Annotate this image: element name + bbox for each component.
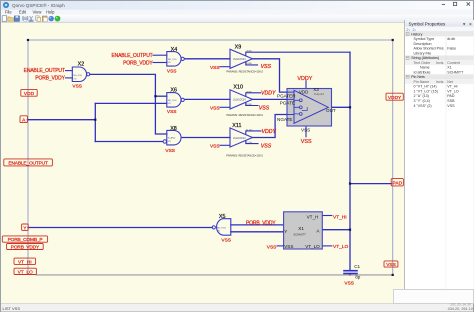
svg-text:PORB_VDDY: PORB_VDDY: [123, 60, 153, 66]
port Y: [22, 224, 29, 231]
panel header: [405, 20, 474, 26]
svg-text:VSS: VSS: [167, 109, 177, 115]
buffer X10: [226, 85, 263, 117]
label: X2 input nets: [24, 68, 66, 81]
wire: net A from port to junction: [27, 119, 95, 121]
svg-text:1 "VT_LO" (15): 1 "VT_LO" (15): [414, 89, 438, 93]
label: VT_LO right of X1: [333, 244, 348, 250]
block X3 Output3: [277, 87, 336, 132]
svg-text:8p: 8p: [355, 275, 361, 280]
svg-text:VSS: VSS: [210, 143, 220, 149]
svg-text:VSS: VSS: [344, 280, 354, 286]
svg-text:ND_PG1: ND_PG1: [73, 75, 83, 77]
label: X4 input nets: [111, 53, 153, 66]
svg-text:PAD: PAD: [393, 180, 403, 186]
wire: X1 VSS stub left: [277, 245, 284, 247]
buffer X9: [226, 45, 263, 74]
bottom command field: [394, 290, 474, 304]
menu bar: [1, 10, 473, 15]
icon open: [8, 17, 14, 21]
svg-text:VSS: VSS: [284, 244, 293, 249]
svg-text:VT_HI: VT_HI: [333, 214, 347, 220]
wire: X2 output to X6/X8 column: [90, 74, 167, 134]
nand gate X4: [167, 47, 184, 74]
status bar: [1, 304, 473, 312]
wire: X4 input stub ENABLE_OUTPUT: [153, 54, 167, 56]
wire: X9 output to PGATER: [253, 59, 288, 92]
svg-text:SCHMITT: SCHMITT: [447, 71, 464, 75]
svg-text:VSS: VSS: [447, 104, 455, 108]
label: X9 VSS right: [261, 64, 272, 70]
svg-text:VT_H: VT_H: [307, 214, 319, 219]
label: X9 VSS left: [210, 65, 220, 71]
svg-text:PAD: PAD: [447, 94, 455, 98]
label: VSS left of X1: [267, 245, 277, 251]
right panel: [405, 20, 474, 304]
wire: X4 input stub PORB_VDDY: [153, 62, 167, 64]
port VT_HI: [14, 258, 36, 265]
svg-text:2U3B: 2U3B: [246, 104, 252, 106]
svg-text:VSS: VSS: [259, 105, 270, 111]
svg-text:X6: X6: [170, 88, 177, 94]
svg-text:C1: C1: [354, 264, 360, 269]
svg-text:ENABLE_OUTPUT: ENABLE_OUTPUT: [111, 53, 152, 59]
svg-text:Pin Nets: Pin Nets: [411, 75, 425, 79]
wire: X9 upper-right pin to PAD net vertical: [246, 52, 350, 55]
svg-text:Allow Shorted Pins: Allow Shorted Pins: [414, 47, 444, 51]
node: PAD branch junction: [349, 183, 351, 185]
svg-text:ENABLE_OUTPUT: ENABLE_OUTPUT: [24, 68, 65, 74]
svg-text:PARAMS: RESISTANCE=100.0: PARAMS: RESISTANCE=100.0: [226, 69, 263, 73]
port PAD (right): [391, 179, 403, 187]
svg-text:VDD: VDD: [24, 91, 35, 97]
svg-text:Invis: Invis: [436, 61, 444, 65]
svg-text:A_GO: A_GO: [246, 128, 252, 131]
capacitor C1: [344, 264, 361, 287]
wire: X11 output to NGATE: [253, 115, 288, 138]
svg-text:PARAMS: RESISTANCE=100.0: PARAMS: RESISTANCE=100.0: [226, 113, 263, 117]
svg-text:File: File: [5, 10, 12, 15]
svg-text:PORB_VDDY: PORB_VDDY: [11, 245, 40, 251]
wire: branch to X6 input A: [155, 95, 166, 97]
svg-text:VSS: VSS: [386, 262, 396, 268]
node: bottom-right junction: [392, 274, 394, 276]
svg-text:2U3D: 2U3D: [246, 51, 252, 53]
svg-text:Symbol Type: Symbol Type: [414, 37, 435, 41]
wire: X10 upper-right pin VDDY stub: [246, 93, 261, 96]
svg-text:VDDY: VDDY: [262, 129, 277, 135]
block X1 SCHMITT: [284, 212, 323, 249]
wire: X5 input from X1 Y pin: [231, 231, 284, 233]
port PORB_COMB_P: [2, 236, 47, 243]
port A: [20, 116, 27, 124]
wire: X3 VSS stub below: [305, 126, 307, 137]
svg-text:X1: X1: [298, 226, 304, 231]
svg-text:Name: Name: [420, 66, 430, 70]
label: X11 VDDY right: [262, 129, 277, 135]
svg-text:X8: X8: [170, 126, 177, 132]
wire: X8 output to X11 input: [181, 137, 230, 139]
svg-text:LSLVLDC24: LSLVLDC24: [233, 100, 246, 102]
schematic canvas: [1, 23, 405, 304]
svg-text:3 "Y" (0,4): 3 "Y" (0,4): [414, 99, 430, 103]
svg-text:VSS: VSS: [267, 245, 277, 251]
svg-text:PGATE: PGATE: [280, 101, 295, 106]
svg-text:VDDY: VDDY: [388, 95, 402, 101]
icon copy: [36, 16, 41, 22]
svg-text:Text Order: Text Order: [414, 61, 432, 65]
svg-text:ND_PG1: ND_PG1: [168, 59, 178, 61]
nand gate X2: [72, 61, 89, 89]
icon paste: [42, 16, 47, 22]
wire: net A to X6 input B: [95, 102, 167, 104]
svg-text:X5: X5: [219, 214, 226, 220]
svg-text:VT_LO: VT_LO: [305, 244, 320, 249]
node: top-right corner: [392, 39, 394, 41]
app icon: [3, 2, 9, 8]
svg-text:2 "A" (13): 2 "A" (13): [414, 94, 429, 98]
svg-text:ENABLE_OUTPUT: ENABLE_OUTPUT: [8, 161, 48, 167]
svg-text:Edit: Edit: [19, 10, 27, 15]
category String (Attributes): [405, 55, 474, 60]
svg-text:VT_LO: VT_LO: [333, 244, 348, 250]
maximize button: [453, 2, 456, 5]
label: X10 VDDY right: [261, 91, 276, 97]
svg-text:PORB_COMB_P: PORB_COMB_P: [8, 237, 43, 243]
title bar: [1, 1, 473, 10]
wire: X11 upper-right pin VDDY stub: [246, 131, 261, 134]
close button: [467, 2, 470, 5]
svg-text:PARAMS: RESISTANCE=100.0: PARAMS: RESISTANCE=100.0: [226, 153, 263, 157]
wire: X11 VSS stub left: [220, 144, 230, 146]
svg-text:2U3D: 2U3D: [246, 91, 252, 93]
wire: X3 VDD stub to VDDY label: [305, 81, 307, 89]
svg-text:SCHMITT: SCHMITT: [293, 232, 306, 236]
svg-text:VDDY: VDDY: [297, 76, 312, 82]
svg-text:LIST VSS: LIST VSS: [3, 306, 21, 311]
wire: X9 lower-right pin VSS stub: [246, 62, 258, 65]
svg-text:VSS: VSS: [210, 105, 220, 111]
wire: X1 VT_H stub: [322, 215, 332, 217]
wire: net A vertical branch: [94, 103, 96, 141]
svg-text:VSS: VSS: [261, 64, 272, 70]
icon undo: [49, 16, 54, 21]
svg-text:PORB_VDDY: PORB_VDDY: [246, 220, 276, 226]
wire: main vertical PAD net: [349, 52, 351, 270]
svg-text:VT_LO: VT_LO: [447, 89, 459, 93]
label: X11 VSS right: [261, 144, 272, 150]
wire: X4 output to X9 input: [185, 58, 230, 60]
svg-text:Id attribute: Id attribute: [414, 71, 431, 75]
svg-text:ND_PG4: ND_PG4: [217, 227, 227, 229]
toolbar: [1, 15, 473, 23]
svg-text:2U3B: 2U3B: [246, 63, 252, 65]
svg-text:Library File: Library File: [414, 52, 432, 56]
icon new: [2, 16, 6, 22]
wire: left vertical net (thin): [27, 40, 29, 274]
wire: X3 OUT to main vertical: [332, 106, 351, 108]
wire: net A to X8 inverted input: [95, 141, 163, 143]
svg-text:VD: VD: [168, 103, 171, 105]
wire: Y net from port to X5 output: [28, 227, 212, 229]
svg-text:2↓: 2↓: [407, 28, 411, 32]
svg-text:Help: Help: [46, 10, 55, 15]
svg-text:Description: Description: [414, 42, 432, 46]
minimize button: [442, 3, 445, 5]
svg-text:X2: X2: [78, 61, 85, 67]
wire: PAD branch to port: [350, 183, 392, 185]
svg-text:Y: Y: [284, 229, 287, 234]
svg-text:P_GO: P_GO: [246, 142, 252, 144]
svg-text:VT_HI: VT_HI: [18, 259, 32, 265]
svg-text:Net: Net: [447, 80, 453, 84]
svg-text:4 "VSS" (2): 4 "VSS" (2): [414, 104, 432, 108]
wire: X2 input stub ENABLE_OUTPUT: [66, 70, 73, 72]
svg-text:VD: VD: [73, 78, 76, 80]
wire: top horizontal net (thin): [28, 39, 393, 41]
svg-text:False: False: [447, 47, 456, 51]
svg-text:VDD: VDD: [299, 90, 308, 95]
svg-text:VSS: VSS: [261, 144, 272, 150]
svg-text:VT_HI: VT_HI: [447, 85, 457, 89]
svg-text:NGATE: NGATE: [277, 117, 292, 122]
svg-text:262.35, 94.30: 262.35, 94.30: [450, 303, 471, 307]
svg-text:Symbol Properties: Symbol Properties: [409, 21, 447, 26]
icon save: [14, 16, 19, 22]
svg-text:Invis: Invis: [436, 80, 444, 84]
port PORB_VDDY: [7, 244, 44, 251]
svg-text:Qorvo QSPICE® - IGraph: Qorvo QSPICE® - IGraph: [12, 2, 65, 8]
svg-text:VT_LO: VT_LO: [18, 270, 33, 276]
svg-text:VSS: VSS: [72, 83, 82, 89]
svg-text:Content: Content: [447, 61, 460, 65]
svg-text:View: View: [33, 10, 42, 15]
svg-text:X11: X11: [232, 123, 241, 129]
label: VSS below X3: [301, 139, 312, 145]
wire: X2 input stub PORB_VDDY: [66, 77, 73, 79]
svg-text:0 "VT_HI" (14): 0 "VT_HI" (14): [414, 85, 437, 89]
svg-text:VSS: VSS: [167, 69, 177, 75]
category History: [405, 32, 474, 37]
label: VDDY above X3: [297, 76, 312, 82]
and gate X8 with inverted input: [163, 126, 181, 154]
svg-text:PGATER: PGATER: [277, 94, 296, 99]
port VDD: [21, 89, 37, 97]
wire: X10 output to PGATE: [253, 98, 288, 100]
svg-text:X9: X9: [235, 45, 242, 51]
svg-text:PORB_VDDY: PORB_VDDY: [35, 76, 65, 82]
svg-text:VSS: VSS: [165, 148, 175, 154]
wire: right vertical net (thin): [392, 40, 394, 275]
port ENABLE_OUTPUT: [4, 159, 53, 167]
svg-text:OUT: OUT: [326, 108, 336, 113]
nand gate X6: [167, 88, 184, 116]
svg-text:X10: X10: [233, 85, 243, 91]
svg-text:VSS: VSS: [301, 139, 312, 145]
svg-text:dt.db: dt.db: [447, 37, 455, 41]
svg-text:VD: VD: [168, 62, 171, 64]
port VSS (right): [384, 261, 398, 268]
svg-text:VSS: VSS: [221, 237, 231, 243]
nand gate X5 (mirrored): [212, 214, 231, 244]
svg-text:LSLVLDC24: LSLVLDC24: [233, 138, 246, 140]
svg-text:X4: X4: [171, 47, 178, 53]
node: X1 A branch junction: [349, 229, 351, 231]
node: A net junction: [94, 119, 96, 121]
port VT_LO: [14, 268, 36, 275]
icon run: [55, 16, 61, 22]
svg-text:History: History: [411, 32, 422, 36]
wire: X10 lower-right pin VSS stub: [246, 103, 258, 106]
svg-text:String (Attributes): String (Attributes): [411, 56, 439, 60]
svg-text:Output3: Output3: [314, 92, 324, 96]
port VDDY (right): [386, 93, 403, 101]
svg-text:2↓: 2↓: [413, 28, 417, 32]
svg-text:VDDY: VDDY: [261, 91, 276, 97]
label: X10 VSS right: [259, 105, 270, 111]
label: X11 VSS left: [210, 143, 220, 149]
wire: X11 lower-right pin VSS stub: [246, 141, 258, 144]
wire: X5 input PORB_VDDY: [231, 224, 284, 226]
svg-text:N_AND: N_AND: [168, 137, 176, 140]
svg-text:SSB: SSB: [447, 99, 455, 103]
svg-text:LSLVLDC24: LSLVLDC24: [233, 59, 246, 61]
svg-text:ND_PG1: ND_PG1: [168, 100, 178, 102]
svg-text:X1: X1: [447, 66, 451, 70]
svg-text:VD: VD: [217, 231, 220, 233]
wire: X1 VT_LO stub: [322, 245, 332, 247]
node: X2 output / X6 input junction: [154, 95, 156, 97]
wire: X1 A pin to main vertical: [322, 229, 350, 231]
label: X10 VSS left: [210, 105, 220, 111]
svg-text:VSS: VSS: [301, 128, 310, 133]
label: VT_HI right of X1: [333, 214, 347, 220]
svg-text:Pin Name: Pin Name: [414, 80, 430, 84]
icon print: [23, 16, 28, 22]
wire: X6 output to X10 input: [185, 98, 230, 100]
svg-text:VSS: VSS: [210, 65, 220, 71]
wire: X10 VSS stub left: [220, 106, 230, 108]
label: PORB_VDDY on X5 input wire: [246, 220, 276, 226]
property grid: [405, 32, 474, 109]
category Pin Nets: [405, 74, 474, 79]
svg-text:434.20, 261.10: 434.20, 261.10: [448, 307, 473, 311]
svg-text:VD: VD: [168, 141, 171, 143]
wire: bottom horizontal gray net: [36, 274, 392, 276]
panel sort toolbar: [405, 27, 474, 32]
buffer X11: [226, 123, 263, 157]
wire: X9 VSS stub left: [220, 66, 230, 68]
icon cut: [29, 16, 33, 22]
node: top-left corner: [27, 39, 29, 41]
svg-text:✕: ✕: [469, 21, 473, 26]
node: OUT junction: [349, 106, 351, 108]
